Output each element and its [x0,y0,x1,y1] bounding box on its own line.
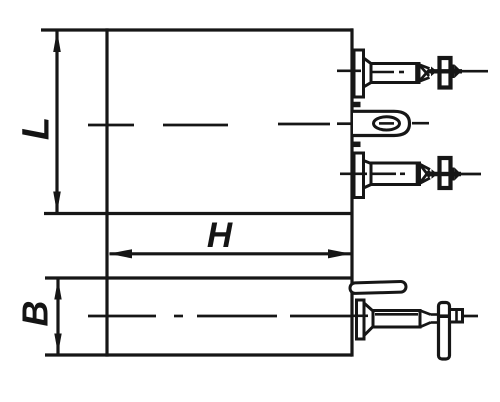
bushing 2 nut [440,158,451,188]
case top edge (side view) [45,276,352,279]
bushing 1 body [371,64,419,83]
case top edge (top view) [41,28,353,31]
svg-text:B: B [15,301,56,327]
bushing 2 body end cap [416,164,419,184]
bushing 1 centerline [337,70,361,73]
bushing 2 flange [354,153,364,198]
top view centerline [88,124,134,127]
bolt terminal shaft [373,311,420,328]
dimension line L [55,31,58,213]
bushing 1 taper [364,58,372,87]
bushing 2 body [371,163,420,185]
arrowhead H left [109,249,132,258]
terminal lug right centerline [412,122,429,125]
bushing 1 washer right [452,65,455,79]
bushing 2 washer right [452,168,455,181]
case left edge (both views) [105,28,108,356]
filler tube (side view) [350,281,406,293]
terminal lug body [353,111,410,135]
terminal lug hole centerline dash [379,122,394,125]
bushing 1 stem [460,70,488,73]
arrowhead B bottom [54,334,61,354]
svg-text:H: H [207,216,233,255]
bolt stem through bar [437,314,452,318]
bolt flange centerline crossing [352,314,368,317]
bushing 2 stem through nut [429,172,461,176]
arrowhead H right [328,249,351,258]
bolt terminal flange (side view) [357,300,365,339]
bushing 1 body end cap [415,65,418,82]
side view centerline [88,315,156,318]
bushing 2 washer left [432,169,438,179]
case right edge (both views) [350,28,353,356]
bushing 2 taper [364,161,372,189]
arrowhead L top [53,31,61,52]
bolt terminal end taper [420,311,431,315]
bushing 1 cone [419,65,429,77]
bushing 1 nut [440,58,451,88]
bushing 1 stem through nut [428,69,462,73]
bushing 1 washer left [431,67,437,77]
bushing 1 flange [354,50,364,97]
bolt terminal shaft inner line [375,313,418,316]
dimension line H [110,252,351,255]
svg-text:L: L [16,117,58,140]
case bottom edge (side view) [45,353,352,356]
dimension line B [56,279,59,354]
case bottom edge (top view) [44,212,353,215]
bushing 2 centerline [340,173,367,176]
bolt terminal cone [364,303,373,336]
terminal lug hole [374,117,400,130]
bolt terminal stem line [463,315,479,318]
terminal lug plate step bottom [352,142,361,148]
arrowhead L bottom [53,192,61,213]
bolt terminal neck [431,313,438,316]
bushing 2 cone [420,164,430,177]
bolt terminal stub [450,310,463,323]
bushing 2 stem [460,173,482,176]
bolt terminal flat bar [439,303,450,360]
arrowhead B top [54,279,61,299]
terminal lug plate step top [352,102,361,108]
